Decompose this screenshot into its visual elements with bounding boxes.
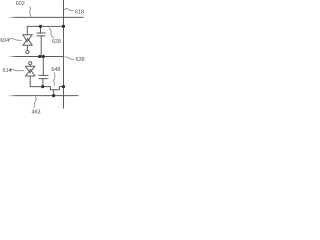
leader squiggle label 628 — [49, 28, 54, 38]
suppressor D2 top tick — [29, 65, 31, 66]
svg-text:604: 604 — [0, 38, 9, 44]
suppressor D2 terminal circle — [29, 62, 32, 65]
capacitor C1 top lead — [40, 26, 42, 33]
wire upper branch from TVS to net — [27, 26, 63, 34]
leader squiggle label 618 — [64, 9, 74, 11]
capacitor C1 plates — [37, 33, 46, 36]
suppressor D1 triangles — [23, 35, 32, 46]
svg-text:602: 602 — [16, 1, 25, 7]
junction dot middle rail right — [42, 55, 45, 58]
svg-text:463: 463 — [32, 110, 41, 116]
capacitor C2 plates — [38, 75, 48, 78]
leader squiggle label 614 — [9, 70, 24, 71]
svg-text:614: 614 — [3, 68, 12, 74]
wire tap from jog to bottom rail — [53, 90, 55, 96]
wire fade top rail left end — [7, 15, 16, 19]
wire lower branch with jog — [30, 76, 63, 90]
wire middle rail — [9, 56, 64, 58]
wire bottom rail — [9, 95, 79, 97]
svg-text:628: 628 — [52, 39, 61, 45]
leader squiggle label 602 — [29, 7, 31, 17]
suppressor D2 triangles — [26, 66, 35, 76]
wire top rail — [9, 16, 84, 18]
suppressor D1 terminal circle — [26, 50, 29, 53]
svg-text:648: 648 — [51, 67, 60, 73]
svg-text:638: 638 — [76, 57, 85, 63]
capacitor C2 bottom lead — [42, 79, 44, 87]
junction dot upper branch at net — [62, 25, 65, 28]
junction dot lower cap / branch — [41, 85, 44, 88]
capacitor C1 bottom lead — [40, 36, 42, 56]
leader squiggle label 604 — [9, 39, 22, 41]
capacitor C2 top lead — [42, 57, 44, 76]
suppressor D1 bottom tick — [26, 45, 28, 50]
junction dot upper cap / branch — [39, 25, 42, 28]
wire fade bottom rail left end — [7, 94, 16, 98]
svg-text:618: 618 — [75, 9, 84, 15]
wire vertical net 618 — [63, 0, 65, 109]
junction dot tap at bottom rail — [52, 94, 55, 97]
leader squiggle label 648 — [54, 72, 55, 85]
leader squiggle label 638 — [64, 57, 74, 60]
junction dot lower branch at net — [62, 85, 65, 88]
leader squiggle label 463 — [34, 96, 36, 108]
wire fade middle rail left end — [7, 55, 16, 59]
junction dot middle rail left — [38, 55, 41, 58]
